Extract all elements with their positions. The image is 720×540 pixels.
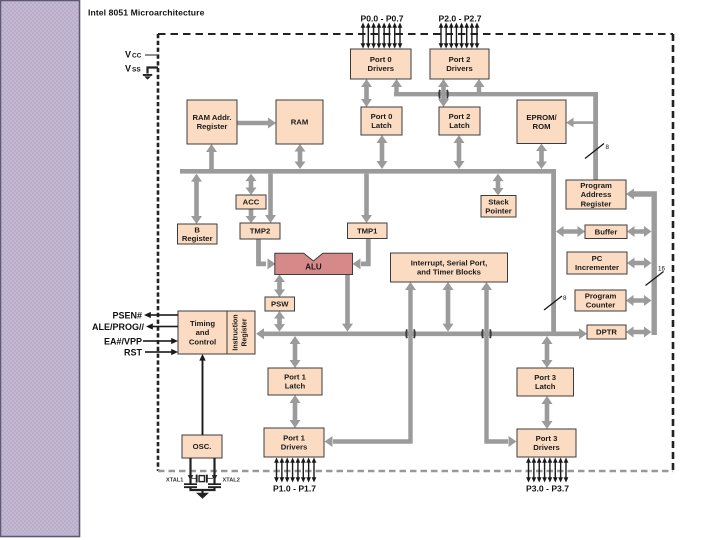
chip boundary top (dashed) bbox=[158, 33, 673, 35]
block Timing and Control bbox=[178, 311, 227, 354]
svg-text:OSC.: OSC. bbox=[193, 442, 212, 451]
block Port 3 Latch bbox=[517, 368, 574, 396]
svg-text:TMP1: TMP1 bbox=[357, 226, 378, 235]
block Interrupt Serial Port Timer bbox=[391, 253, 508, 282]
svg-text:ROM: ROM bbox=[533, 122, 551, 131]
svg-text:8: 8 bbox=[563, 295, 567, 302]
XTAL1 wire from OSC bbox=[188, 458, 194, 484]
ALE/PROG pin label bbox=[92, 322, 145, 332]
load capacitor C2 bbox=[208, 483, 221, 488]
svg-text:Counter: Counter bbox=[586, 301, 615, 310]
block PC Incrementer bbox=[567, 252, 627, 274]
svg-text:Interrupt, Serial Port,: Interrupt, Serial Port, bbox=[411, 259, 487, 268]
svg-text:P3.0 - P3.7: P3.0 - P3.7 bbox=[526, 483, 569, 493]
svg-text:Port 0: Port 0 bbox=[371, 112, 393, 121]
svg-text:Program: Program bbox=[585, 292, 617, 301]
block DPTR bbox=[587, 325, 626, 339]
bus width slash 16 (right bus) bbox=[646, 266, 666, 286]
port 3 pins label bbox=[526, 483, 569, 493]
svg-text:XTAL1: XTAL1 bbox=[166, 478, 183, 484]
block Buffer bbox=[585, 225, 627, 239]
svg-text:CC: CC bbox=[132, 53, 142, 60]
svg-text:Latch: Latch bbox=[449, 121, 470, 130]
port 3 pin bundle P3.0-P3.7 bbox=[526, 458, 568, 483]
svg-text:Port 0: Port 0 bbox=[370, 55, 392, 64]
block EPROM/ROM bbox=[517, 100, 566, 144]
svg-text:TMP2: TMP2 bbox=[250, 227, 271, 236]
block TMP2 bbox=[240, 223, 280, 239]
port 1 pins label bbox=[273, 483, 316, 493]
block Instruction Register (rotated label) bbox=[227, 311, 255, 354]
arrow Port 0 Latch to bus bbox=[377, 135, 388, 169]
svg-text:Program: Program bbox=[580, 181, 612, 190]
Vcc pin label bbox=[125, 50, 142, 60]
svg-text:SS: SS bbox=[132, 67, 141, 74]
arrow PSW to lower bus bbox=[274, 311, 285, 332]
block PSW bbox=[265, 297, 295, 311]
ALE/PROG wire bbox=[146, 323, 178, 329]
arrow bus to TMP2 (second operand) bbox=[265, 174, 276, 223]
svg-text:PSW: PSW bbox=[271, 300, 289, 309]
wire interrupt block to Port 3 Drivers (crosses bus) bbox=[481, 282, 517, 447]
svg-text:16: 16 bbox=[658, 266, 665, 273]
arrow Port 1 Latch to Port 1 Drivers bbox=[290, 395, 301, 428]
chip boundary left (dashed) bbox=[157, 34, 160, 471]
wire TMP2 to ALU bbox=[259, 239, 276, 269]
left decorative stripe bbox=[1, 1, 80, 537]
wire interrupt block to Port 1 Drivers (crosses bus) bbox=[325, 282, 417, 447]
arrow Port 0 Drivers to Port 0 Latch bbox=[361, 79, 372, 107]
svg-text:Port 2: Port 2 bbox=[449, 55, 471, 64]
svg-text:Register: Register bbox=[197, 122, 228, 131]
wire ALU result to lower bus bbox=[342, 275, 353, 332]
arrow bus to B Register bbox=[191, 174, 202, 224]
arrow Port 3 Latch to Port 3 Drivers bbox=[542, 396, 553, 429]
arrow ACC to TMP2 bbox=[246, 209, 257, 223]
block Port 1 Drivers bbox=[264, 428, 324, 457]
svg-text:PC: PC bbox=[592, 254, 603, 263]
block RAM bbox=[276, 100, 323, 144]
block Port 0 Drivers bbox=[351, 49, 412, 79]
arrow bus to RAM Addr Register bbox=[206, 144, 217, 169]
chip boundary bottom (dashed) bbox=[158, 470, 673, 472]
XTAL2 wire from OSC bbox=[212, 458, 218, 484]
block Port 2 Drivers bbox=[430, 49, 489, 79]
svg-text:Drivers: Drivers bbox=[368, 64, 395, 73]
arrow PC Incrementer to right bus bbox=[627, 258, 652, 269]
EA#/VPP wire bbox=[143, 338, 178, 344]
svg-text:Buffer: Buffer bbox=[595, 227, 618, 236]
svg-text:Address: Address bbox=[581, 190, 612, 199]
address stub arrow into EPROM/ROM bbox=[566, 118, 594, 128]
port 0 pin bundle P0.0-P0.7 bbox=[361, 23, 403, 49]
block Port 1 Latch bbox=[268, 368, 322, 395]
svg-text:ALU: ALU bbox=[305, 263, 322, 272]
svg-text:Latch: Latch bbox=[285, 382, 306, 391]
XTAL1 label bbox=[166, 478, 183, 484]
block ALU (with notched top) bbox=[275, 253, 353, 274]
svg-text:RAM Addr.: RAM Addr. bbox=[192, 113, 231, 122]
svg-text:Port 1: Port 1 bbox=[283, 434, 306, 443]
arrow Port 2 Drivers to Port 2 Latch bbox=[438, 79, 449, 107]
svg-text:EA#/VPP: EA#/VPP bbox=[104, 337, 142, 347]
svg-text:B: B bbox=[194, 225, 200, 234]
arrow Buffer to left bus bbox=[556, 226, 585, 237]
svg-text:Register: Register bbox=[581, 199, 612, 208]
svg-text:P2.0 - P2.7: P2.0 - P2.7 bbox=[439, 13, 482, 23]
block Stack Pointer bbox=[481, 196, 516, 218]
hop mark on address line at port2 arrow crossing bbox=[439, 90, 448, 99]
PSEN# wire bbox=[144, 312, 178, 318]
svg-text:RAM: RAM bbox=[291, 118, 309, 127]
address branch arrow into Port 0 drivers bbox=[391, 79, 402, 96]
hop mark on lower bus at port3 wire crossing bbox=[482, 329, 491, 338]
svg-text:Register: Register bbox=[242, 318, 249, 346]
svg-text:Timing: Timing bbox=[190, 319, 215, 328]
block Port 2 Latch bbox=[439, 107, 480, 135]
XTAL2 label bbox=[223, 478, 240, 484]
arrow DPTR to right bus bbox=[626, 327, 652, 338]
wire OSC to Timing and Control bbox=[199, 354, 205, 435]
svg-text:Incrementer: Incrementer bbox=[575, 263, 619, 272]
arrow interrupt block to lower bus bbox=[443, 282, 454, 332]
svg-text:V: V bbox=[125, 50, 131, 60]
block Port 0 Latch bbox=[361, 107, 402, 135]
svg-text:Control: Control bbox=[189, 338, 216, 347]
svg-text:Latch: Latch bbox=[535, 382, 556, 391]
port 1 pin bundle P1.0-P1.7 bbox=[274, 458, 316, 483]
svg-text:Stack: Stack bbox=[488, 197, 509, 206]
block RAM Addr Register bbox=[187, 100, 237, 144]
oscillator ground bbox=[191, 488, 215, 499]
arrow bus to ACC bbox=[246, 174, 257, 195]
svg-text:Drivers: Drivers bbox=[281, 443, 308, 452]
lower internal bus (arrow to Instruction Register and DPTR) bbox=[256, 328, 587, 339]
wire TMP1 to ALU bbox=[353, 239, 369, 270]
svg-text:ALE/PROG//: ALE/PROG// bbox=[92, 322, 145, 332]
svg-text:DPTR: DPTR bbox=[596, 328, 617, 337]
arrow Port 2 Latch to bus bbox=[454, 135, 465, 169]
right program bus (bend into Program Address Register) bbox=[626, 189, 654, 336]
Vss wire with ground bbox=[143, 68, 158, 80]
arrow lower bus to Port 3 Latch bbox=[542, 336, 553, 368]
svg-text:Port 3: Port 3 bbox=[534, 373, 556, 382]
port 0 pins label bbox=[361, 13, 404, 23]
svg-text:Drivers: Drivers bbox=[446, 64, 473, 73]
svg-text:XTAL2: XTAL2 bbox=[223, 478, 240, 484]
svg-text:Instruction: Instruction bbox=[233, 314, 240, 350]
PSEN# pin label bbox=[112, 311, 142, 321]
Vcc wire bbox=[145, 54, 158, 56]
bus width slash 8 (left bus) bbox=[544, 295, 567, 310]
arrow bus to TMP1 bbox=[361, 174, 372, 223]
bus width slash 8 (program address line) bbox=[585, 144, 610, 159]
block B Register bbox=[178, 224, 218, 244]
arrow Buffer to right bus bbox=[627, 226, 652, 237]
svg-text:and: and bbox=[196, 328, 210, 337]
svg-text:ACC: ACC bbox=[243, 198, 260, 207]
svg-text:Port 1: Port 1 bbox=[284, 373, 307, 382]
address branch arrow into Port 2 drivers bbox=[474, 79, 485, 96]
svg-text:Port 2: Port 2 bbox=[449, 112, 471, 121]
crystal symbol bbox=[191, 475, 213, 483]
hop mark on lower bus at port1 wire crossing bbox=[406, 329, 415, 338]
svg-text:Latch: Latch bbox=[371, 121, 392, 130]
internal data bus (upper, with right bend down) bbox=[180, 169, 556, 336]
svg-text:RST: RST bbox=[124, 348, 143, 358]
block Port 3 Drivers bbox=[517, 429, 576, 457]
svg-text:Register: Register bbox=[182, 234, 213, 243]
RST pin label bbox=[124, 348, 143, 358]
block Program Counter bbox=[575, 290, 626, 311]
program address line (to port drivers, bend down to Program Address Register) bbox=[394, 92, 598, 180]
arrow EPROM/ROM to bus bbox=[536, 144, 547, 170]
port 2 pin bundle P2.0-P2.7 bbox=[439, 23, 480, 49]
svg-text:P0.0 - P0.7: P0.0 - P0.7 bbox=[361, 13, 404, 23]
svg-text:Pointer: Pointer bbox=[485, 207, 511, 216]
slide title bbox=[88, 8, 205, 18]
block OSC bbox=[182, 435, 222, 458]
svg-text:V: V bbox=[125, 64, 131, 74]
svg-text:Intel 8051 Microarchitecture: Intel 8051 Microarchitecture bbox=[88, 8, 205, 18]
arrow Program Counter to right bus bbox=[626, 295, 652, 306]
svg-text:and Timer Blocks: and Timer Blocks bbox=[417, 268, 481, 277]
svg-text:Port 3: Port 3 bbox=[536, 434, 558, 443]
block ACC bbox=[236, 195, 266, 209]
Vss pin label bbox=[125, 64, 141, 74]
block Program Address Register bbox=[566, 180, 626, 209]
svg-text:EPROM/: EPROM/ bbox=[526, 113, 557, 122]
svg-text:Drivers: Drivers bbox=[533, 443, 560, 452]
EA#/VPP pin label bbox=[104, 337, 142, 347]
arrow ALU to PSW bbox=[274, 275, 285, 298]
svg-text:PSEN#: PSEN# bbox=[112, 311, 142, 321]
arrow bus to Stack Pointer bbox=[493, 174, 504, 196]
arrow RAM to bus bbox=[295, 144, 306, 169]
port 2 pins label bbox=[439, 13, 482, 23]
arrow RAM Addr Register to RAM bbox=[237, 118, 276, 129]
arrow lower bus to Port 1 Latch bbox=[290, 336, 301, 368]
svg-text:8: 8 bbox=[606, 144, 610, 151]
load capacitor C1 bbox=[184, 483, 197, 488]
chip boundary right (dashed) bbox=[672, 34, 675, 471]
svg-text:P1.0 - P1.7: P1.0 - P1.7 bbox=[273, 483, 316, 493]
block TMP1 bbox=[348, 223, 388, 239]
RST wire bbox=[145, 349, 178, 355]
